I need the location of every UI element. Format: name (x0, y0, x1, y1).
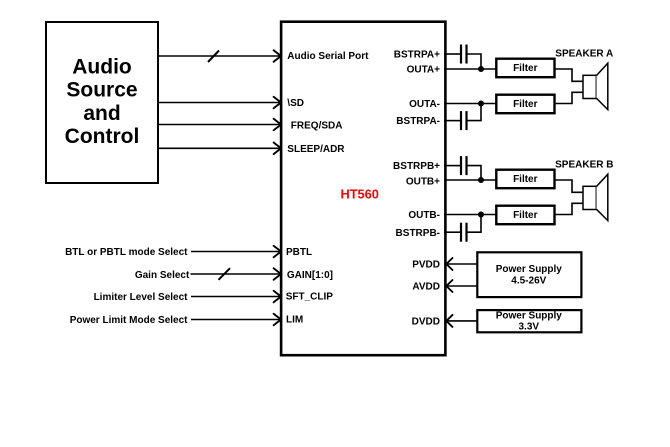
svg-text:Filter: Filter (513, 210, 538, 221)
filter box A2 (496, 95, 554, 114)
svg-text:LIM: LIM (286, 315, 303, 326)
svg-text:SPEAKER A: SPEAKER A (555, 49, 613, 60)
svg-text:BSTRPB+: BSTRPB+ (393, 161, 440, 172)
wire filter B2 to speaker B (555, 203, 584, 214)
wire SLEEP/ADR (158, 143, 281, 155)
svg-text:OUTB-: OUTB- (408, 210, 440, 221)
wire PVDD (446, 258, 477, 270)
svg-text:4.5-26V: 4.5-26V (511, 275, 546, 286)
svg-text:Power Supply: Power Supply (496, 264, 563, 275)
svg-text:BSTRPA-: BSTRPA- (396, 116, 440, 127)
wire C3 to node B+ (468, 166, 482, 180)
svg-text:Power Supply: Power Supply (496, 311, 563, 322)
svg-text:BSTRPA+: BSTRPA+ (394, 50, 440, 61)
svg-text:and: and (83, 102, 120, 125)
node junction A- (478, 101, 484, 107)
svg-text:SFT_CLIP: SFT_CLIP (286, 291, 334, 302)
wire OUTA+ (444, 68, 496, 70)
svg-text:PVDD: PVDD (412, 260, 440, 271)
svg-text:OUTB+: OUTB+ (406, 177, 440, 188)
filter box B2 (496, 206, 554, 225)
wire SFT_CLIP (191, 291, 281, 303)
svg-text:OUTA+: OUTA+ (407, 65, 441, 76)
svg-text:3.3V: 3.3V (519, 321, 540, 332)
filter box A1 (496, 59, 554, 77)
svg-text:Filter: Filter (513, 63, 538, 74)
wire DVDD (446, 315, 477, 327)
op-amp U1 HT560 main block (281, 22, 445, 356)
svg-text:BSTRPB-: BSTRPB- (396, 228, 440, 239)
svg-text:PBTL: PBTL (286, 247, 312, 258)
wire OUTB- (444, 214, 496, 216)
wire BSTRPA- (444, 120, 460, 122)
power supply box 4.5-26V (477, 252, 581, 297)
filter box B1 (496, 170, 554, 189)
wire FREQ/SDA (158, 119, 281, 131)
capacitor C4 bootstrap B- (461, 223, 467, 242)
wire \SD (158, 97, 281, 109)
svg-text:BTL or PBTL mode Select: BTL or PBTL mode Select (65, 247, 188, 258)
svg-text:OUTA-: OUTA- (409, 99, 440, 110)
svg-text:Limiter Level Select: Limiter Level Select (94, 292, 189, 303)
svg-text:DVDD: DVDD (412, 317, 440, 328)
speaker B symbol (583, 174, 608, 220)
svg-text:SLEEP/ADR: SLEEP/ADR (287, 144, 345, 155)
wire LIM (191, 314, 281, 326)
svg-text:Gain Select: Gain Select (135, 270, 190, 281)
wire C1 to node A+ (468, 54, 482, 69)
svg-text:Audio: Audio (72, 55, 131, 78)
wire filter B1 to speaker B (555, 180, 584, 192)
capacitor C3 bootstrap B+ (461, 156, 467, 175)
svg-text:\SD: \SD (287, 98, 304, 109)
wire AVDD (446, 280, 477, 292)
speaker A symbol (583, 63, 608, 109)
wire filter A2 to speaker A (555, 92, 584, 103)
node junction B- (478, 212, 484, 218)
svg-text:HT560: HT560 (341, 186, 379, 201)
wire BSTRPB- (444, 231, 460, 233)
capacitor C2 bootstrap A- (461, 111, 467, 130)
wire BSTRPA+ (444, 53, 460, 55)
wire BSTRPB+ (444, 165, 460, 167)
svg-text:AVDD: AVDD (412, 282, 440, 293)
wire filter A1 to speaker A (555, 69, 584, 81)
svg-text:SPEAKER B: SPEAKER B (555, 160, 613, 171)
capacitor C1 bootstrap A+ (461, 45, 467, 64)
svg-text:Control: Control (65, 125, 140, 148)
node junction B+ (478, 177, 484, 183)
node junction A+ (478, 66, 484, 72)
wire PBTL (191, 246, 281, 258)
wire GAIN (191, 268, 282, 280)
wire C4 to node B- (468, 215, 482, 233)
power supply box 3.3V (477, 310, 581, 332)
audio source box (46, 22, 158, 183)
wire audio serial port (158, 50, 281, 62)
svg-text:Audio Serial Port: Audio Serial Port (287, 51, 369, 62)
svg-text:FREQ/SDA: FREQ/SDA (291, 120, 343, 131)
wire OUTB+ (444, 179, 496, 181)
svg-text:Source: Source (66, 79, 137, 102)
svg-text:Power Limit Mode Select: Power Limit Mode Select (70, 315, 188, 326)
svg-text:Filter: Filter (513, 174, 538, 185)
svg-text:Filter: Filter (513, 99, 538, 110)
wire OUTA- (444, 103, 496, 105)
svg-text:GAIN[1:0]: GAIN[1:0] (287, 270, 333, 281)
wire C2 to node A- (468, 104, 482, 121)
